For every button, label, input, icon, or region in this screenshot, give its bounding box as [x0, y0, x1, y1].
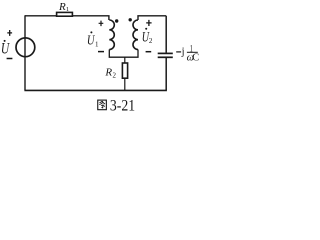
svg-text:U: U — [1, 41, 11, 58]
svg-text:1: 1 — [66, 6, 69, 13]
wire right branch lower — [165, 58, 167, 90]
svg-text:R: R — [58, 1, 66, 13]
polarity dot right — [129, 18, 132, 21]
resistor R2 — [122, 63, 127, 78]
wire right branch upper — [165, 16, 167, 53]
capacitor C top plate — [158, 52, 173, 54]
polarity dot left — [115, 19, 118, 22]
wire left branch vertical — [24, 15, 26, 90]
inductor L2 secondary coil — [133, 20, 138, 50]
wire bottom — [24, 89, 167, 91]
caption glyph tu (figure) — [98, 100, 107, 110]
wire secondary top segment — [138, 16, 166, 20]
label minus of -j — [176, 51, 181, 53]
wire R1 to primary corner — [73, 16, 109, 20]
wire top-left segment — [25, 15, 56, 17]
svg-text:3-21: 3-21 — [110, 97, 135, 114]
inductor L1 primary coil — [109, 20, 114, 50]
svg-text:C: C — [192, 53, 199, 64]
wire transformer bottom bar — [109, 50, 138, 58]
wire R2 stem — [124, 57, 126, 90]
svg-text:R: R — [104, 67, 112, 79]
label + of U — [7, 30, 12, 36]
svg-text:2: 2 — [149, 37, 153, 45]
label minus of U1 — [98, 51, 104, 53]
resistor R1 — [57, 12, 73, 16]
svg-text:2: 2 — [113, 71, 117, 79]
fraction bar — [187, 51, 198, 53]
label minus of U — [7, 58, 13, 60]
svg-text:1: 1 — [95, 41, 99, 49]
label + of U1 — [99, 21, 104, 27]
label + of U2 — [146, 20, 151, 26]
voltage source U circle — [16, 38, 35, 57]
svg-text:j: j — [181, 47, 185, 58]
capacitor C bottom plate — [158, 56, 173, 58]
label minus of U2 — [146, 51, 152, 53]
